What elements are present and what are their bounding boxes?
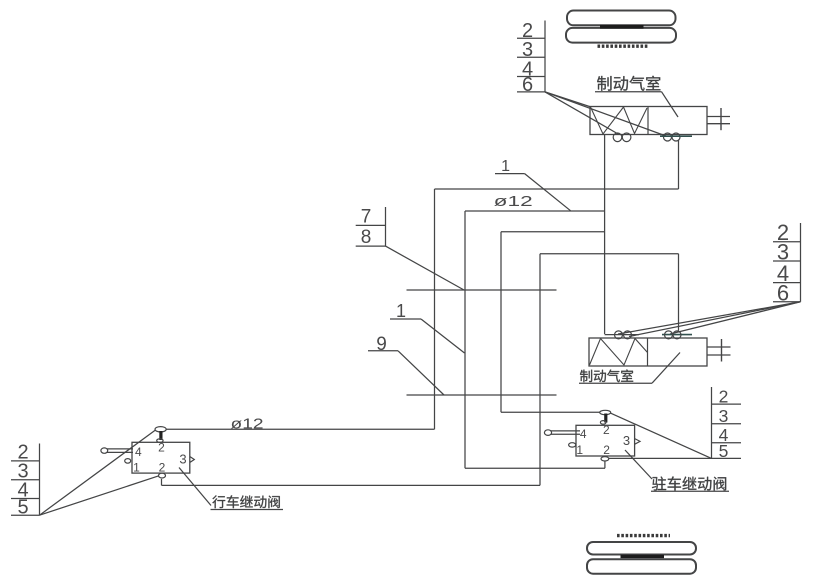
brake chamber bottom - push rod fork bbox=[707, 346, 731, 348]
parking relay valve - top port stem bbox=[604, 414, 607, 423]
parking relay valve - port 4 stub rod bbox=[551, 430, 580, 432]
wheel/tire pair top right - lower tire bbox=[566, 28, 676, 43]
service relay valve - body bbox=[132, 442, 190, 473]
brake chamber top - right port clamp circles bbox=[664, 133, 672, 141]
leader from label to top chamber bbox=[662, 92, 679, 117]
pipe riser V1 bbox=[434, 189, 436, 429]
brake chamber top - spring zigzag bbox=[591, 107, 648, 134]
pipe run to service valve bottom port bbox=[162, 484, 541, 486]
leader from bottom label to lower chamber bbox=[652, 353, 680, 384]
svg-text:1: 1 bbox=[501, 158, 510, 175]
svg-text:ø12: ø12 bbox=[494, 194, 533, 210]
leader from right list to lower chamber left port bbox=[618, 302, 801, 334]
label brake chamber (top) text bbox=[597, 76, 660, 91]
service relay valve - outlet 3 arrow bbox=[190, 457, 194, 463]
svg-text:2: 2 bbox=[159, 460, 166, 474]
chassis cross rail lower bbox=[407, 394, 557, 396]
brake chamber top - left port clamp circles bbox=[613, 133, 622, 142]
svg-text:4: 4 bbox=[580, 427, 587, 441]
pipe drop to lower chamber right port bbox=[678, 254, 680, 331]
leader from callout 1 to pipe bbox=[525, 174, 571, 211]
parking relay valve - port 1 circle bbox=[569, 443, 576, 447]
brake chamber bottom - housing bbox=[589, 338, 707, 366]
wheel/tire pair bottom right - lower tire bbox=[587, 559, 696, 574]
brake chamber bottom - internal divider bbox=[647, 338, 649, 366]
parking relay valve - top port circle bbox=[600, 410, 611, 414]
parking relay valve - top port seat circle bbox=[600, 421, 606, 425]
svg-text:6: 6 bbox=[522, 74, 533, 96]
svg-text:1: 1 bbox=[576, 443, 583, 457]
svg-text:4: 4 bbox=[135, 445, 142, 459]
pipe riser V4 bbox=[539, 254, 541, 486]
pipe run D bbox=[540, 253, 679, 255]
leader from list to parking valve top port bbox=[611, 413, 712, 458]
leader from callout 9 to lower rail bbox=[398, 351, 444, 395]
brake chamber bottom - left port clamp circles bbox=[615, 331, 623, 339]
svg-text:9: 9 bbox=[376, 334, 387, 355]
axle contact bar between bottom tires bbox=[621, 555, 665, 558]
leader from service valve to its label bbox=[179, 468, 211, 506]
hatched ground line above bottom tire bbox=[617, 534, 670, 537]
brake chamber bottom - spring zigzag bbox=[590, 339, 648, 366]
pipe run to parking valve top port bbox=[501, 411, 600, 413]
pipe: service valve top port to riser V1 bbox=[166, 428, 434, 430]
service relay valve - port 4 stub rod bbox=[107, 448, 133, 450]
parking relay valve - body bbox=[576, 425, 635, 456]
service relay valve - top port stem bbox=[159, 431, 162, 440]
pipe run C bbox=[501, 231, 605, 233]
pipe run B bbox=[465, 210, 605, 212]
label service relay valve text bbox=[212, 495, 279, 508]
svg-text:2: 2 bbox=[603, 443, 610, 457]
leader from parking valve to its label bbox=[625, 450, 652, 479]
brake chamber bottom - left port tick bbox=[605, 334, 639, 336]
service relay valve - top port circle bbox=[155, 427, 166, 432]
svg-text:3: 3 bbox=[179, 451, 186, 466]
svg-text:3: 3 bbox=[623, 433, 630, 448]
svg-text:1: 1 bbox=[396, 301, 406, 321]
pipe riser V2 bbox=[464, 211, 466, 468]
brake chamber top - push rod fork bbox=[707, 116, 730, 118]
leader from list to top chamber right port bbox=[545, 92, 666, 136]
leader from right list to lower chamber right port bbox=[670, 302, 801, 334]
brake chamber top - internal divider bbox=[647, 107, 649, 135]
wheel/tire pair bottom right - upper tire bbox=[587, 542, 696, 555]
chassis cross rail upper bbox=[407, 289, 557, 291]
leader from 7/8 to upper rail bbox=[386, 246, 465, 290]
brake chamber bottom - right port clamp circles bbox=[665, 331, 673, 339]
leader from list to service valve top port bbox=[40, 430, 156, 515]
svg-text:2: 2 bbox=[603, 423, 610, 437]
svg-text:7: 7 bbox=[361, 207, 372, 228]
pipe drop to top chamber right port bbox=[678, 140, 680, 189]
service relay valve - bottom port circle bbox=[159, 473, 166, 478]
brake chamber top - housing bbox=[590, 107, 707, 135]
leader from right list to lower chamber left port clamp bbox=[629, 302, 801, 337]
parking relay valve - bottom port circle bbox=[601, 457, 609, 461]
brake chamber bottom - right port tick bbox=[662, 334, 692, 336]
label parking relay valve text bbox=[652, 476, 726, 490]
leader from list to top chamber left port bbox=[545, 92, 619, 135]
service relay valve - top port seat circle bbox=[157, 439, 163, 443]
svg-text:2: 2 bbox=[719, 386, 729, 406]
wheel/tire pair top right - upper tire bbox=[567, 11, 676, 26]
svg-text:8: 8 bbox=[361, 227, 372, 248]
svg-text:1: 1 bbox=[133, 460, 140, 474]
label brake chamber (bottom) text bbox=[580, 369, 633, 382]
leader from list to top chamber housing corner bbox=[545, 92, 591, 107]
axle contact bar between tires bbox=[600, 25, 644, 29]
parking relay valve - outlet 3 arrow bbox=[635, 439, 640, 445]
service relay valve - port 1 circle bbox=[125, 459, 131, 464]
pipe riser V3 bbox=[500, 232, 502, 413]
pipe run A to top chamber right port bbox=[435, 188, 679, 190]
svg-text:2: 2 bbox=[158, 440, 165, 454]
hatched ground line under top tire bbox=[598, 45, 649, 48]
leader line from parking valve bottom port to list bbox=[609, 457, 712, 459]
pipe run to parking valve bottom port bbox=[465, 467, 605, 469]
leader from callout 1 mid to riser V2 bbox=[421, 319, 465, 353]
svg-text:ø12: ø12 bbox=[231, 416, 264, 433]
pipe trunk V5 between chamber left ports bbox=[604, 135, 606, 335]
brake chamber top - right port fitting tick bbox=[660, 135, 692, 137]
leader from list to service valve bottom port bbox=[40, 476, 159, 515]
